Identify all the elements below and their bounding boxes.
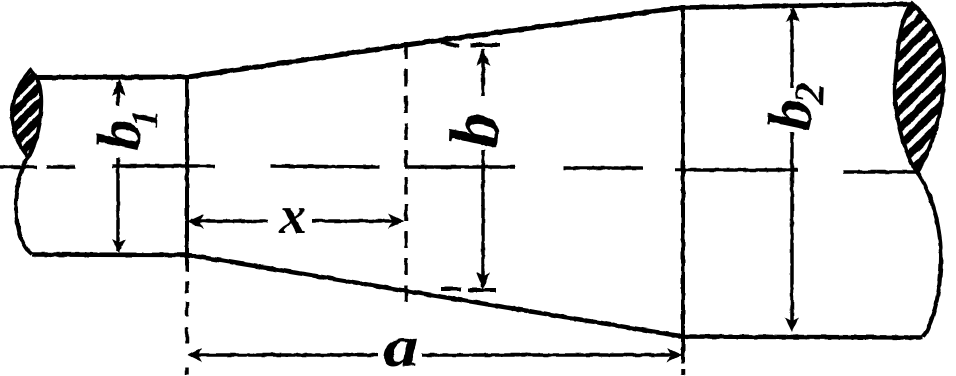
x right arrowhead <box>388 214 404 229</box>
b2 bottom arrowhead <box>785 318 799 332</box>
section line at taper end x=683 (solid) <box>681 5 685 364</box>
svg-text:b: b <box>436 111 514 149</box>
left end section (hatched lens) <box>0 60 130 165</box>
b1 top arrowhead <box>112 79 126 96</box>
dimension x line right segment <box>312 219 401 223</box>
beam top edge right (prismatic part) <box>683 4 912 8</box>
dashed section line at x=406 <box>404 42 408 310</box>
b top extension dash <box>441 42 459 46</box>
beam top edge taper <box>188 8 683 78</box>
dimension b1 line <box>116 82 120 106</box>
b bottom arrowhead <box>476 272 490 289</box>
section line at taper start x=187 (solid) <box>185 75 189 272</box>
left end lower outline arc <box>16 157 32 255</box>
beam bottom edge taper <box>188 255 683 337</box>
right end section (hatched lens) <box>745 0 956 175</box>
dimension b2 line <box>790 9 794 88</box>
dimension a line left segment <box>191 353 378 357</box>
a left arrowhead <box>188 348 203 362</box>
beam bottom edge left (prismatic part) <box>32 252 188 257</box>
b top tick bar <box>470 43 500 47</box>
right end lower outline arc <box>917 172 941 337</box>
b1 bottom arrowhead <box>112 239 126 253</box>
dimension b line <box>481 49 485 96</box>
beam bottom edge right (prismatic part) <box>683 337 923 338</box>
x left arrowhead <box>188 214 205 229</box>
b bottom tick bar <box>468 288 496 292</box>
dimension a line right segment <box>422 353 679 357</box>
b bottom extension dash <box>441 287 461 291</box>
svg-text:x: x <box>279 185 307 245</box>
beam top edge left (prismatic part) <box>33 75 188 81</box>
b top arrowhead <box>476 48 490 66</box>
centerline dashes <box>0 166 917 172</box>
small dash below section line x=683 <box>681 369 685 375</box>
b2 top arrowhead <box>786 7 800 22</box>
svg-text:a: a <box>383 314 418 376</box>
a right arrowhead <box>667 348 682 362</box>
extension dashed line below x=187 <box>185 281 189 375</box>
dimension x line left segment <box>191 219 268 223</box>
